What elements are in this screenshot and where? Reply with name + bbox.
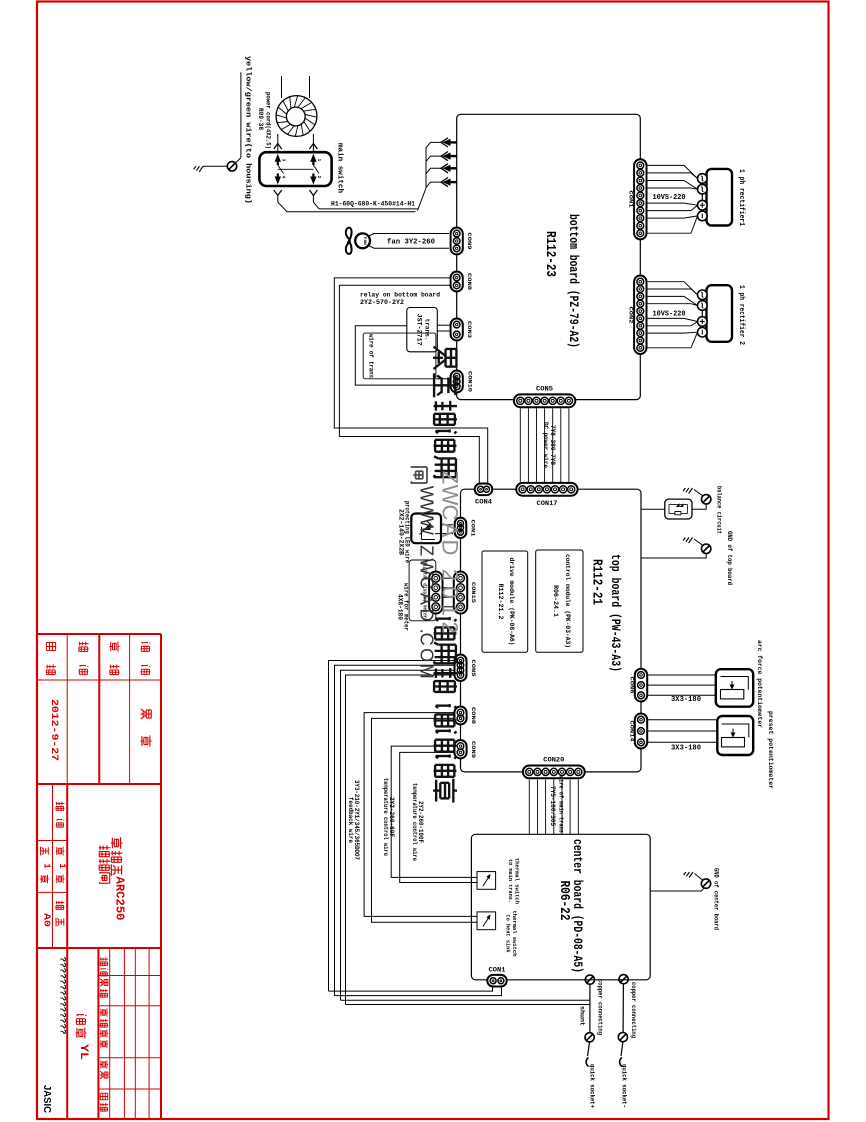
label CON2 [628,307,635,325]
connector CON2 (bottom board) [634,276,646,355]
label trans JST-2717 [416,314,431,346]
svg-text:bottom board (PZ-79-A2): bottom board (PZ-79-A2) [566,214,580,348]
input arrow 3 into bottom board [441,164,457,173]
label CON20 [543,757,564,764]
wire CON8-CON4 a [334,278,487,483]
svg-text:1: 1 [42,863,52,869]
wire balance circle to earth [694,490,703,497]
label bottom board [566,214,580,348]
svg-text:W: W [416,502,436,519]
label yellow/green wire [244,56,252,204]
JASIC logo [41,1085,53,1113]
drive module box [482,551,528,652]
label fan 3Y2-260 [387,238,435,246]
svg-text:A: A [438,523,463,538]
label preset potentiometer [767,711,774,789]
connector CON8 (top board) [454,707,466,725]
main switch body [259,152,331,186]
label R06-22 [556,881,572,921]
label 10VS-220 (2) [653,311,686,319]
wire trans loop to CON10 [355,326,451,385]
arc force potentiometer [716,669,753,707]
label CON3 bb [466,321,473,339]
earth center board [684,872,693,878]
wire housing to yellow/green [236,72,241,163]
connector CON6 (top board) [635,669,647,702]
label CON14 [629,721,636,743]
label R112-21 [589,559,605,605]
svg-text:2X2-140-2X2B: 2X2-140-2X2B [398,509,405,555]
wire to balance circuit [641,508,665,510]
svg-text:top board (PW-43-A3): top board (PW-43-A3) [608,554,622,672]
wire copper 1 to socket [588,1042,590,1056]
svg-text:copper connecting: copper connecting [596,979,603,1035]
question marks note [57,957,66,1035]
label CON8 bb [466,273,473,291]
balance circuit box [665,499,692,519]
connector CON15 (top board) [454,572,467,614]
svg-text:CON14: CON14 [629,721,636,743]
fan propeller [346,228,352,254]
rectifier1 body [707,169,733,226]
label wire of trans [368,334,375,378]
svg-text:10VS-220: 10VS-220 [653,311,686,319]
svg-text:D: D [438,540,463,556]
svg-text:preset potentiometer: preset potentiometer [767,711,774,789]
label temperature control wire 60F [382,778,395,856]
label 1 ph rectifier 2 [737,285,745,345]
svg-text:CON9: CON9 [466,233,473,251]
label wire for meter [397,583,410,631]
label wire of main trans [549,776,565,836]
label digital display meter [422,562,429,619]
label CON6 [629,677,636,695]
wire CON3 to trans b [437,330,450,332]
svg-text:1: 1 [438,604,463,616]
connector CON1 (top board) [455,518,467,538]
svg-text:temperature control wire: temperature control wire [411,783,418,861]
svg-text:yellow/green wire(to housing): yellow/green wire(to housing) [244,56,252,204]
svg-text:1 ph rectifier1: 1 ph rectifier1 [737,169,745,226]
toroid ferrite on power cord [276,96,317,137]
svg-text:fan 3Y2-260: fan 3Y2-260 [387,238,435,246]
svg-text:CON17: CON17 [537,500,558,507]
wire fan upper [368,234,449,237]
svg-text:CON2: CON2 [628,307,635,325]
label power cord [256,92,272,149]
main switch contacts [275,154,322,185]
digital display meter box [409,560,436,621]
svg-text:CON6: CON6 [629,677,636,695]
label quick socket- [621,1064,628,1108]
title block grid [37,634,161,1119]
svg-text:FAN: FAN [362,237,366,245]
connector CON1 (center board) [487,975,506,987]
svg-text:7Y8-380-7Y8: 7Y8-380-7Y8 [549,425,556,465]
svg-text:A: A [417,593,437,605]
bottom board PZ-79-A2 [457,114,641,399]
svg-text:CON5: CON5 [536,385,553,392]
wire gnd circle to earth tb [694,539,703,546]
svg-text:W: W [438,485,463,506]
connector CON8 (bottom board) [451,272,463,292]
svg-text:CON10: CON10 [467,371,474,393]
svg-text:balance circuit: balance circuit [715,486,722,534]
connector CON10 (bottom board) [451,371,463,393]
svg-text:2Y2-260-100F: 2Y2-260-100F [417,801,424,843]
connector CON5 (bottom board) [514,394,575,407]
label quick socket+ [589,1064,596,1108]
chevron into switch L [274,144,282,150]
label 10VS-220 (1) [653,194,686,202]
svg-text:YL: YL [77,1044,89,1060]
svg-text:H1-60Q-680-K-450#14-H1: H1-60Q-680-K-450#14-H1 [331,200,415,208]
svg-text:W: W [417,558,437,575]
wire of trans box [363,333,436,379]
LED box [411,514,441,544]
svg-text:CON1: CON1 [489,967,506,974]
quick socket - symbol [620,1058,622,1067]
svg-text:GND of center board: GND of center board [713,868,720,930]
svg-text:2: 2 [316,176,322,179]
label CON1 [628,191,635,209]
label thermal switch 1 [507,858,521,904]
svg-text:D: D [417,609,437,622]
svg-text:O: O [417,648,437,662]
svg-text:to main trans.: to main trans. [507,859,514,903]
label protecting LED wire [398,501,411,563]
gnd circle center board [701,879,710,888]
label balance circuit [715,486,722,534]
svg-text:2: 2 [438,569,463,581]
svg-text:0: 0 [438,586,463,598]
svg-text:GND of top board: GND of top board [726,531,733,585]
svg-text:??????????????: ?????????????? [57,957,66,1035]
wire balance to gnd circle [692,504,706,509]
svg-text:quick socket-: quick socket- [621,1064,628,1108]
svg-text:3X3-180: 3X3-180 [671,696,701,704]
svg-text:2Y2-260-60F: 2Y2-260-60F [388,797,395,837]
label GND of center board [713,868,720,930]
wire LED to CON1 a [441,524,453,526]
wire gnd circle to earth cb [695,874,703,881]
svg-text:1: 1 [57,863,67,869]
svg-text:CON8: CON8 [466,273,473,291]
svg-text:relay on bottom board: relay on bottom board [360,291,440,299]
svg-text:4X8-180: 4X8-180 [397,594,404,620]
label R112-23 [542,231,558,277]
svg-text:CON5: CON5 [470,660,477,678]
svg-text:A0: A0 [42,913,52,927]
control module box [536,550,583,652]
connector CON17 (top board) [516,483,577,496]
wire bus to CON1 center b [335,987,502,996]
label CON8 tb [470,707,477,725]
wire box to CON10 [436,378,451,380]
svg-text:CON9: CON9 [470,741,477,759]
connector CON9 (bottom board) [451,228,463,255]
svg-text:arc force potentiometer: arc force potentiometer [756,640,763,728]
chevron into switch R [309,144,317,150]
label feedback wire [347,780,360,860]
svg-text:CON20: CON20 [543,757,564,764]
label thermal switch 2 [505,911,519,957]
svg-text:drive module (PK-08-A6): drive module (PK-08-A6) [508,558,515,646]
svg-text:to heat sink: to heat sink [505,915,512,954]
wire switch out L [278,196,416,212]
wire CON9 to thermal1 b [400,752,477,882]
wires CON14 to preset pot [648,720,718,743]
wire arrow stubs [426,142,441,187]
wire copper 1 [589,984,591,1032]
label 3X3-180 (1) [671,696,701,704]
label copper connecting 1 [596,979,603,1035]
label arc force potentiometer [756,640,763,728]
wires CON2 to rectifier2 [647,282,698,348]
svg-text:feedback wire: feedback wire [347,797,354,843]
svg-text:shunt: shunt [579,1006,586,1026]
label CON10 bb [467,371,474,393]
label CON17 [537,500,558,507]
wire power cord L [278,76,282,152]
svg-text:C: C [417,633,437,646]
label main switch [336,143,344,193]
svg-text:1: 1 [316,159,322,162]
wires DC power bus [520,408,569,482]
svg-text:CON15: CON15 [470,582,477,604]
wire bus to shunt a [341,999,590,1001]
label CON5 bb [536,385,553,392]
input arrow 2 into bottom board [441,152,457,161]
svg-text:3: 3 [281,159,287,162]
wire CON8 to thermal2 a [364,713,477,917]
svg-text:main switch: main switch [336,143,344,193]
svg-text:R112-21: R112-21 [589,559,605,605]
wire LED to CON1 b [435,533,453,535]
copper connection 1 upper [585,975,594,984]
svg-text:1 ph rectifier 2: 1 ph rectifier 2 [737,285,745,345]
svg-text:CON4: CON4 [475,499,492,506]
connector CON3 (bottom board) [451,319,463,341]
watermark ZWCAD 2012 [438,471,463,634]
connector CON5 (top board) [455,655,467,682]
title block text [40,641,151,1111]
watermark cjk line1 [433,347,457,803]
svg-text:trans.: trans. [424,319,431,341]
chevron out of switch R [309,190,317,196]
preset potentiometer [717,716,753,755]
label CON15 [470,582,477,604]
meter connector pill [429,572,442,614]
label 1 ph rectifier1 [737,169,745,226]
svg-text:W: W [417,518,437,535]
wire collector riser [418,148,427,211]
label CON1 tb [470,520,477,538]
label copper connecting 2 [630,982,637,1038]
label CON9 bb [466,233,473,251]
label CON1 cb [489,967,506,974]
svg-text:2Y2-570-2Y2: 2Y2-570-2Y2 [360,299,404,307]
ground (housing earth) [194,166,228,172]
svg-text:W: W [417,486,437,503]
wires CON1 to rectifier1 [647,165,698,233]
wires CON6 to arc pot [648,675,716,695]
svg-text:JASIC: JASIC [41,1085,53,1113]
gnd circle top board [702,544,711,553]
label shunt [579,1006,586,1026]
svg-text:Z: Z [417,545,437,556]
svg-text:2012-9-27: 2012-9-27 [48,699,60,761]
balance earth [683,488,692,494]
svg-text:R06-22: R06-22 [556,881,572,921]
wires CON5 bus left [329,661,455,1005]
svg-text:CON8: CON8 [470,707,477,725]
copper connection 1 lower [585,1033,594,1042]
svg-text:R112-21.2: R112-21.2 [497,584,504,620]
label H1 cable [331,200,415,208]
wire power cord R [310,76,314,152]
copper connection 2 lower [618,1033,627,1042]
wire GND top board [641,554,706,559]
chevron out of switch L [274,190,282,196]
wires meter to CON15 [443,578,454,607]
center board PD-08-A5 [471,834,650,980]
svg-text:Z: Z [438,471,463,484]
svg-text:wire of trans: wire of trans [368,334,375,378]
svg-text:4: 4 [281,176,287,179]
wire CON3 to trans a [437,324,450,326]
label center board [570,839,584,973]
wires main trans bus [529,780,578,835]
connector CON9 (top board) [454,740,466,759]
wire switch out R [313,196,417,209]
thermal switch to heat sink [477,912,496,930]
svg-text:R112-23: R112-23 [542,231,558,277]
svg-text:quick socket+: quick socket+ [589,1064,596,1108]
connector CON4 (top board) [475,484,493,496]
wire fan lower [368,245,449,248]
watermark WWW.ZWCAD.COM [411,467,437,679]
wire bus to CON1 center a [329,987,493,992]
rectifier2 body [707,285,733,342]
label control module [552,554,571,648]
label CON5 tb [470,660,477,678]
svg-text:CON3: CON3 [466,321,473,339]
svg-text:copper connecting: copper connecting [630,982,637,1038]
balance gnd circle [702,495,711,504]
input arrow 4 into bottom board [441,178,457,187]
connector CON20 (top board) [523,766,585,779]
svg-text:CON1: CON1 [628,191,635,209]
label CON9 tb [470,741,477,759]
svg-text:JST-2717: JST-2717 [416,314,423,346]
input arrow 1 into bottom board [441,138,457,147]
earth top board [683,538,692,544]
svg-text:3X3-180: 3X3-180 [671,745,701,753]
wire GND center board [650,889,703,892]
wire copper 2 to socket [621,1042,623,1056]
svg-text:DC power wire: DC power wire [542,422,549,468]
trans JST-2717 box [407,308,438,352]
wire CON8-CON4 b [339,285,479,483]
top board PW-43-A3 [461,489,642,772]
wire bus to shunt b [346,1004,590,1006]
svg-text:R06-24.1: R06-24.1 [552,585,559,617]
connector CON14 (top board) [635,714,647,749]
thermal switch to main trans [477,872,496,890]
fan motor circle [355,233,370,248]
svg-text:7Y5-160/305: 7Y5-160/305 [549,786,556,826]
label 3X3-180 (2) [671,745,701,753]
svg-text:ARC250: ARC250 [113,877,127,921]
svg-text:R09-38: R09-38 [256,108,264,130]
housing connection circle [227,162,236,171]
rectifier1 terminals [698,174,708,221]
svg-text:wire of main trans.: wire of main trans. [558,776,565,836]
copper connection 2 upper [619,975,628,984]
connector CON1 (bottom board) [634,159,646,239]
label drive module [497,558,515,646]
label relay on bottom board [360,291,440,307]
svg-text:2: 2 [438,621,463,633]
label temperature control wire 100F [411,783,424,861]
svg-text:C: C [438,505,463,521]
label top board [608,554,622,672]
LED symbol [420,521,436,540]
label GND of top board [726,531,733,585]
svg-text:C: C [417,576,437,589]
rectifier2 terminals [698,290,708,337]
svg-text:M: M [417,664,437,679]
svg-text:temperature control wire: temperature control wire [382,778,389,856]
wire CON8 to thermal2 b [372,718,478,922]
quick socket + symbol [586,1058,588,1067]
svg-text:CON1: CON1 [470,520,477,538]
label DC power wire [542,422,556,468]
label CON4 [475,499,492,506]
svg-text:control module (PK-03-A3): control module (PK-03-A3) [564,554,571,648]
wire CON9 to thermal1 a [391,746,477,877]
svg-text:10VS-220: 10VS-220 [653,194,686,202]
wire copper 2 [622,984,624,1033]
